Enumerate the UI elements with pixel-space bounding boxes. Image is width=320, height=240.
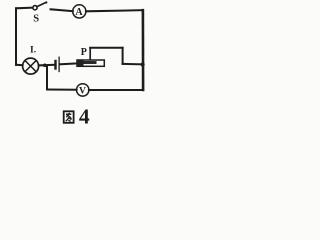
- wire top-left segment: [16, 7, 32, 10]
- rheostat P slider arm: [89, 48, 91, 60]
- switch S contact tip: [45, 1, 47, 3]
- svg-text:A: A: [75, 7, 83, 18]
- svg-text:S: S: [33, 14, 39, 25]
- node junction lamp-right: [43, 64, 47, 68]
- rheostat P body smudge: [78, 61, 97, 64]
- rheostat P body: [77, 60, 104, 66]
- svg-text:V: V: [79, 86, 86, 96]
- lamp L cross: [25, 61, 36, 72]
- switch S lever: [37, 2, 46, 6]
- caption glyph 图: [64, 111, 74, 123]
- ammeter U1 circle: [73, 5, 86, 18]
- wire voltmeter-to-right: [89, 89, 143, 91]
- svg-text:I.: I.: [30, 45, 36, 55]
- svg-text:P: P: [81, 47, 87, 58]
- wire step vertical: [122, 48, 124, 64]
- battery negative plate: [54, 61, 56, 69]
- voltmeter U2 circle: [77, 84, 89, 96]
- svg-text:4: 4: [79, 105, 90, 129]
- node junction right: [141, 62, 145, 66]
- wire voltmeter branch horizontal left: [47, 89, 77, 91]
- battery positive plate: [58, 57, 60, 71]
- wire right vertical: [142, 10, 145, 90]
- wire lamp-to-battery: [39, 64, 55, 67]
- switch S pivot: [33, 6, 37, 10]
- wire switch-to-ammeter: [51, 9, 73, 11]
- wire slider top horizontal: [90, 47, 122, 49]
- wire ammeter-to-right-corner: [86, 10, 143, 11]
- lamp L circle: [23, 58, 39, 74]
- wire battery-to-rheostat: [60, 62, 77, 65]
- wire left-to-lamp: [16, 64, 23, 66]
- wire voltmeter branch vertical: [46, 65, 48, 89]
- wire left vertical: [15, 8, 17, 65]
- wire step horizontal to junction: [123, 63, 143, 66]
- rheostat P body left blob: [77, 60, 84, 66]
